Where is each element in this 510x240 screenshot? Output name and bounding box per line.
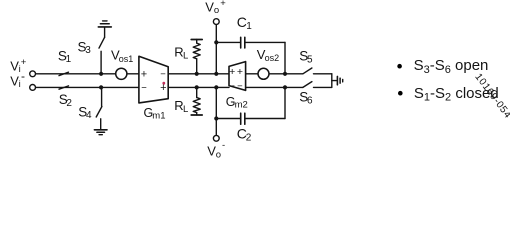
svg-text:+: + [220,0,226,9]
node junction RL bottom [195,85,199,89]
svg-text:S3-S6 open: S3-S6 open [414,57,489,76]
resistor RL bottom supply bar [191,114,202,116]
wire RL bottom bar stem [196,113,198,115]
voltage source Vos1 circle [116,68,127,79]
wire top rail right (Gm1 out to S5 pivot) [168,73,303,75]
wire Vo- stem [215,87,217,135]
terminal Vo+ [213,19,219,25]
svg-text:−: − [160,69,166,80]
wire C2 branch left [216,118,240,120]
switch S5 arm (open) [303,68,312,74]
wire bottom rail right (Gm2 to S6 pivot) [246,86,303,88]
svg-text:os1: os1 [119,54,134,64]
svg-text:+: + [141,69,147,81]
wire C2 branch right [246,118,285,120]
bullet dot 2 [398,91,403,96]
node junction Vo- stem on bottom rail [214,85,218,89]
wire bottom rail after S6 [314,86,332,88]
capacitor C2 plate left [240,113,242,124]
svg-text:o: o [214,5,219,16]
svg-text:5: 5 [307,54,313,65]
svg-text:L: L [183,104,188,115]
switch S3 ground stem [104,27,106,37]
node junction C2 riser on bottom rail [283,85,287,89]
wire S4 vertical tap [101,87,103,106]
wire C1 branch right [246,41,285,43]
svg-text:L: L [183,51,188,62]
ground top bar small [103,20,107,22]
node junction RL top [195,72,199,76]
resistor RL top zigzag [193,43,200,59]
capacitor C2 plate right [244,113,246,124]
svg-text:6: 6 [307,95,313,106]
op-amp Gm1 body [139,56,168,103]
node junction S4 tap [99,85,103,89]
capacitor C1 plate left [240,37,242,48]
terminal Vi- [30,85,36,91]
wire Vo+ stem [215,25,217,74]
bullet dot 1 [397,64,402,69]
voltage source Vos2 circle [258,68,269,79]
svg-text:-: - [21,69,25,83]
ground bottom (below S4) bar large [94,129,107,131]
switch S1 arm (closed) [59,72,69,75]
svg-text:1: 1 [66,54,72,65]
node junction S3 tap [99,72,103,76]
svg-text:m2: m2 [235,100,248,111]
node junction C1 riser on top rail [283,72,287,76]
wire top rail left (Vi+ to Gm1) [36,73,139,75]
red marker dot on Gm1 output [162,82,165,85]
svg-text:S1-S2 closed: S1-S2 closed [414,85,499,104]
switch S4 arm (open) [96,107,102,118]
wire C1 branch left [216,41,240,43]
ground right bar mid [339,78,341,83]
svg-text:−: − [141,83,147,94]
svg-text:m1: m1 [152,111,165,122]
resistor RL top supply bar [191,39,202,41]
wire right ground stub [332,80,337,82]
ground right bar large [336,76,338,84]
wire bottom rail left (Vi- to Gm1) [36,86,139,88]
wire S3 vertical tap [100,51,102,74]
svg-text:1: 1 [246,21,252,32]
svg-text:o: o [216,149,221,160]
node junction C1 on Vo+ stem [214,40,218,44]
switch S2 arm (closed) [59,86,69,89]
capacitor C1 plate right [244,37,246,48]
wire RL top stem [196,59,198,74]
wire RL bottom stem [196,87,198,97]
svg-text:+: + [229,66,235,78]
svg-text:+: + [21,57,27,68]
svg-text:4: 4 [86,110,92,121]
wire bottom rail mid (Gm1 out to Gm2) [168,86,229,88]
svg-text:−: − [237,81,243,92]
svg-text:2: 2 [246,133,252,144]
wire C1 riser to top rail [284,42,286,73]
ground right bar small [342,79,344,82]
ground bottom bar mid [97,131,105,133]
svg-text:2: 2 [66,98,72,109]
wire RL top bar stem [196,40,198,44]
node junction Vo+ stem on top rail [214,72,218,76]
svg-text:−: − [229,81,235,92]
ground bottom bar small [99,134,102,136]
svg-text:-: - [222,140,225,151]
node junction C2 on Vo- stem [214,116,218,120]
svg-text:+: + [237,66,243,78]
switch S6 arm (open) [303,82,312,88]
wire C2 riser to bottom rail [284,87,286,118]
op-amp Gm2 body [229,62,246,91]
switch S3 arm (open) [99,37,105,48]
ground top (above S3) bar large [98,26,111,28]
resistor RL bottom zigzag [193,98,200,113]
wire right bus vertical [331,74,333,88]
wire top rail after S5 [314,73,332,75]
ground top bar mid [100,23,109,25]
terminal Vi+ [30,71,36,77]
svg-text:+: + [160,82,166,94]
svg-text:os2: os2 [265,53,280,63]
svg-text:3: 3 [85,45,91,56]
terminal Vo- [213,135,219,141]
switch S4 ground stem [100,119,102,130]
